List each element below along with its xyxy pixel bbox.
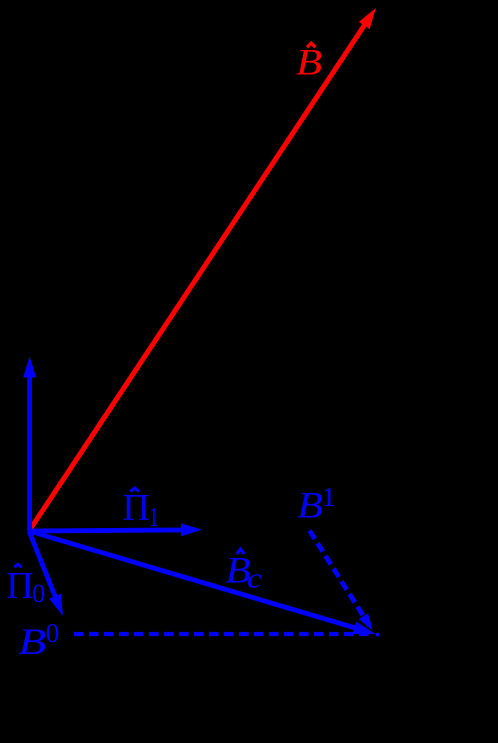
- svg-text:B: B: [296, 42, 322, 83]
- svg-text:0: 0: [46, 618, 60, 648]
- svg-text:c: c: [247, 564, 263, 595]
- svg-text:B: B: [297, 485, 323, 526]
- svg-text:1: 1: [322, 482, 336, 512]
- svg-text:Π: Π: [6, 565, 33, 607]
- vector B-hat (red arrow): [29, 8, 376, 531]
- label B-hat (red): [296, 42, 322, 83]
- svg-text:1: 1: [149, 502, 158, 532]
- wire: [29, 18, 369, 531]
- axis arrow vertical (blue): [23, 357, 36, 532]
- label Pi-hat-1 (blue): [123, 487, 159, 532]
- vector B1 (blue dashed arrow): [310, 531, 373, 631]
- vector B-hat-c (blue long arrow): [29, 531, 379, 636]
- label B1 (blue): [297, 482, 336, 526]
- svg-text:Π: Π: [123, 487, 150, 529]
- vector Pi-hat-1 (blue horizontal arrow): [29, 523, 202, 536]
- svg-text:0: 0: [32, 579, 45, 608]
- label Pi-hat-0 (blue): [6, 564, 45, 608]
- label B0 (blue): [18, 618, 59, 663]
- line B0 (blue dashed horizontal): [74, 632, 374, 636]
- label B-hat-c (blue): [225, 549, 262, 594]
- vector Pi-hat-0 (blue short arrow down-right): [29, 531, 63, 616]
- svg-text:B: B: [18, 622, 46, 663]
